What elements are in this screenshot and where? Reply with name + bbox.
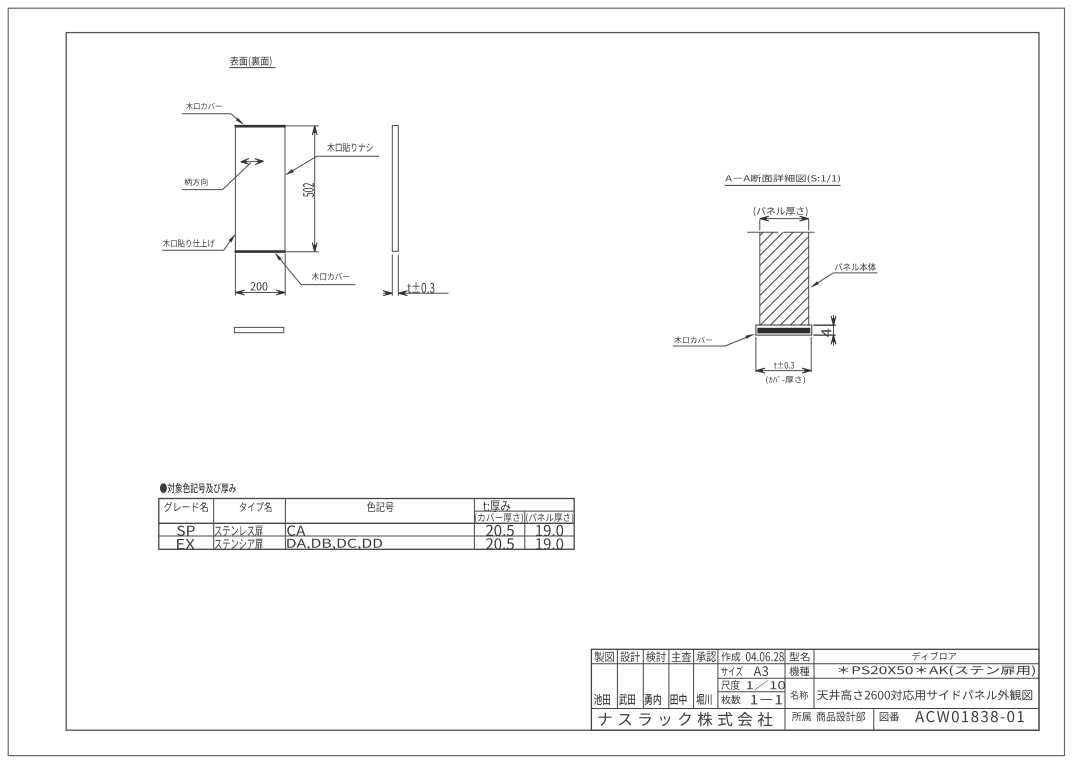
panel body section (hatched) xyxy=(660,232,903,325)
table cell 19.0 (SP panel) xyxy=(536,525,563,536)
title cell 機種 xyxy=(789,666,809,676)
dimension 200 xyxy=(235,253,285,295)
label 木口貼り仕上げ xyxy=(162,234,235,250)
color table grid xyxy=(159,499,574,550)
title cell 作成 xyxy=(721,652,740,661)
dimension t±0.3 (section) xyxy=(756,337,811,373)
table header (カバー厚さ) xyxy=(475,513,523,523)
table header グレード名 xyxy=(164,502,208,512)
table cell 20.5 (EX cover) xyxy=(486,538,514,549)
title value 04.06.28 xyxy=(746,652,784,661)
title cell 設計 xyxy=(620,651,640,662)
title cell 尺度 xyxy=(721,680,739,690)
stamp 武田 xyxy=(619,694,635,705)
title cell 主査 xyxy=(672,651,692,662)
table header t:厚み xyxy=(483,501,510,513)
panel bottom view (thin bar) xyxy=(234,327,283,332)
title value 1-1 xyxy=(751,695,782,704)
title cell 所属 xyxy=(792,712,811,721)
title cell 製図 xyxy=(594,651,614,662)
label 木口カバー (bottom) xyxy=(275,253,356,285)
dimension 502 xyxy=(286,126,319,252)
title value ディブロア xyxy=(912,652,956,660)
dimension t±0.3 (side view) xyxy=(383,255,449,296)
table cell SP xyxy=(177,526,195,536)
table header 色記号 xyxy=(367,502,394,512)
panel front view outline xyxy=(235,126,286,252)
title block grid xyxy=(591,649,1039,730)
front view title 表面(裏面) xyxy=(229,56,275,67)
title cell 承認 xyxy=(696,651,716,662)
table cell ステンシア扉 xyxy=(215,539,263,550)
title value 1/10 xyxy=(747,680,785,690)
stamp 田中 xyxy=(671,694,687,705)
title cell 検討 xyxy=(646,651,666,662)
section title A-A断面詳細図(S:1/1) xyxy=(725,174,841,185)
table caption ●対象色記号及び厚み xyxy=(160,483,236,493)
title value A3 xyxy=(754,666,769,676)
label 木口貼りナシ xyxy=(285,143,379,175)
panel side view (thin bar) xyxy=(392,126,398,252)
table cell CA xyxy=(287,525,305,535)
table header タイプ名 xyxy=(240,502,272,512)
label パネル本体 xyxy=(811,263,878,288)
table cell EX xyxy=(177,539,195,549)
table cell ステンレス扉 xyxy=(215,526,263,537)
label 木口カバー (section) xyxy=(673,334,755,346)
dimension 4 (cover thickness) xyxy=(814,315,836,346)
table header (パネル厚さ) xyxy=(526,513,573,523)
stamp 堀川 xyxy=(697,694,712,705)
section label (パネル厚さ) xyxy=(754,207,808,217)
stamp 池田 xyxy=(594,694,610,705)
table cell DA,DB,DC,DD xyxy=(287,539,382,550)
label 木口カバー (top) xyxy=(182,103,244,125)
section dimension パネル厚さ xyxy=(760,216,809,230)
title cell サイズ xyxy=(721,666,742,676)
stamp 勇内 xyxy=(645,694,662,705)
section label (カバー厚さ) xyxy=(766,376,805,384)
label 柄方向 xyxy=(182,163,251,190)
company name ナスラック株式会社 xyxy=(599,712,773,727)
title cell 枚数 xyxy=(721,695,740,704)
title value 商品設計部 xyxy=(817,712,866,722)
title cell 図番 xyxy=(880,712,900,721)
edge cover section (木口カバー strip) xyxy=(756,325,812,335)
grain direction double arrow xyxy=(241,159,264,165)
title cell 名称 xyxy=(790,691,808,700)
title value ACW01838-01 xyxy=(915,711,1024,722)
table cell 20.5 (SP cover) xyxy=(486,525,514,536)
title value 天井高さ2600対応用サイドパネル外観図 xyxy=(817,690,1032,701)
table cell 19.0 (EX panel) xyxy=(536,538,563,549)
title cell 型名 xyxy=(789,652,809,661)
title value *PS20X50*AK(ステン扉用) xyxy=(838,665,1035,676)
